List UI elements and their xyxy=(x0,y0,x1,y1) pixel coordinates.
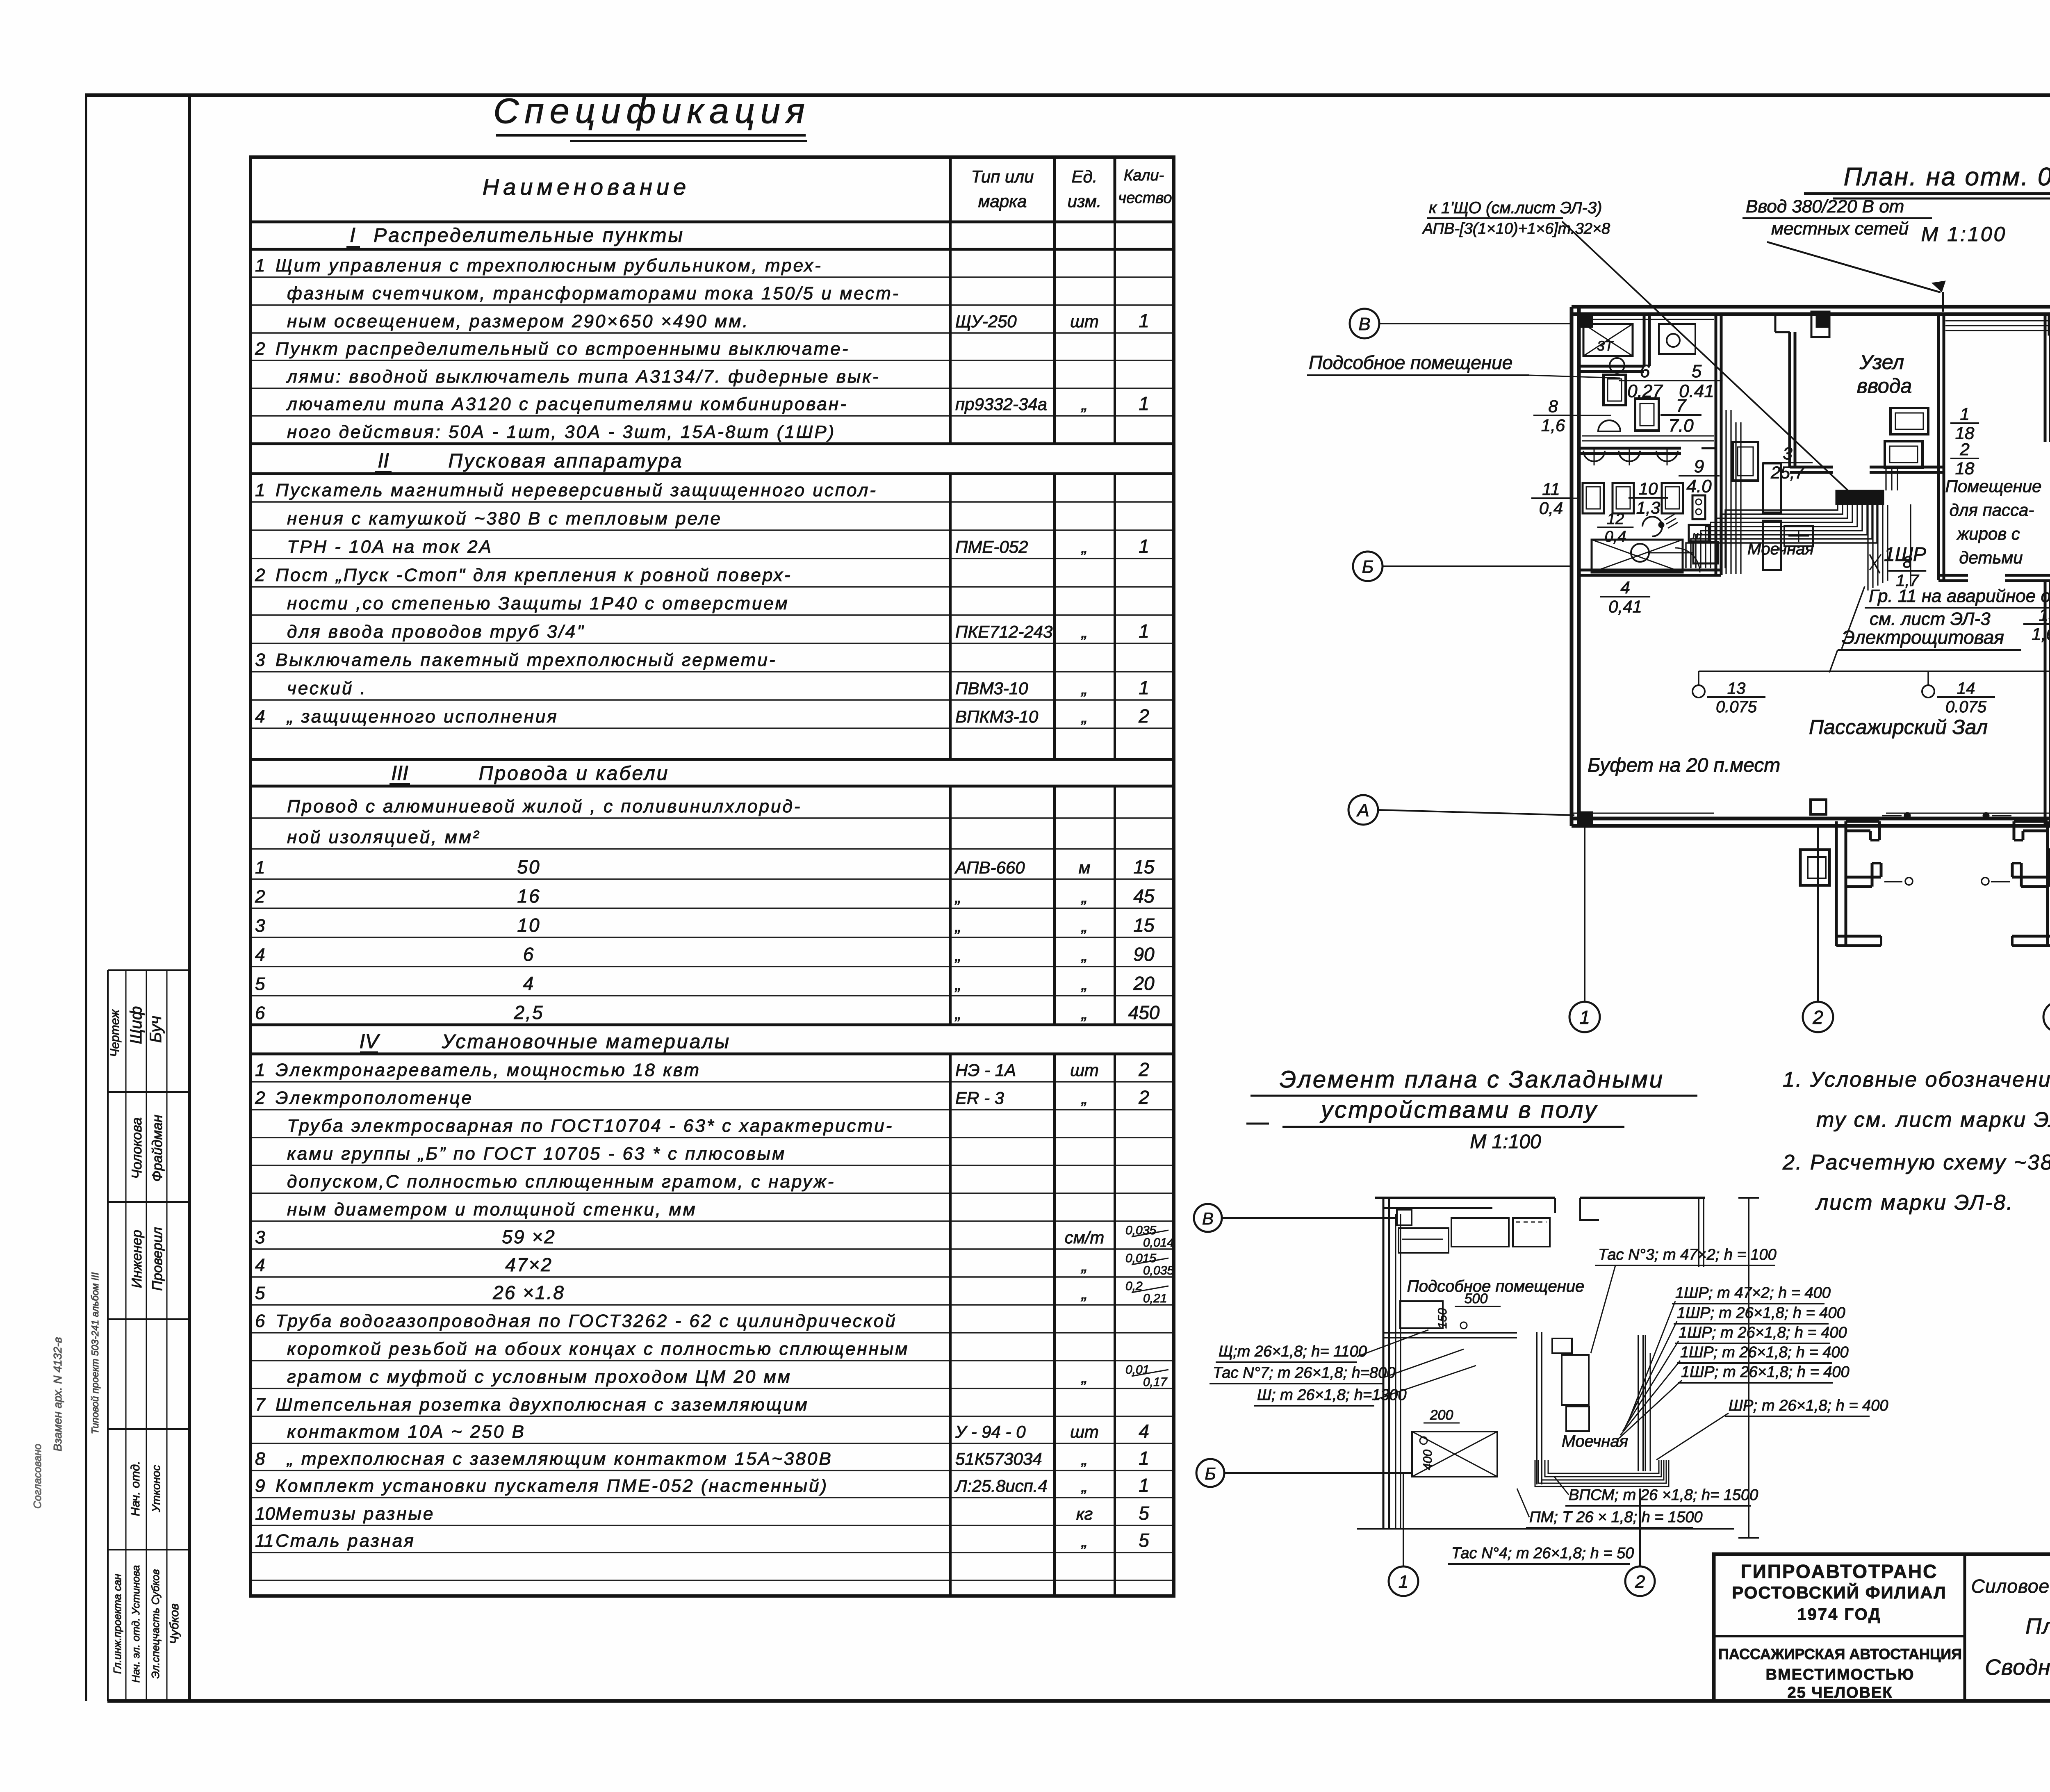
svg-text:51К573034: 51К573034 xyxy=(955,1449,1042,1468)
svg-text:ной изоляцией, мм²: ной изоляцией, мм² xyxy=(287,827,481,847)
junction box on top wires xyxy=(2049,315,2050,335)
fixture: wash basin circle niche xyxy=(1659,324,1695,354)
bottom plan: counter rect middle-left xyxy=(1400,1301,1443,1328)
partition: personnel room left wall x=5000 xyxy=(2044,313,2047,442)
svg-text:Пускатель магнитный нереве: Пускатель магнитный нереверсивный защище… xyxy=(276,480,877,500)
svg-text:Пусковая аппаратура: Пусковая аппаратура xyxy=(448,450,683,472)
svg-text:1: 1 xyxy=(1579,1007,1590,1028)
svg-text:Сталь разная: Сталь разная xyxy=(276,1531,415,1551)
svg-text:ВМЕСТИМОСТЬЮ: ВМЕСТИМОСТЬЮ xyxy=(1766,1666,1915,1683)
bottom plan: dim 200 xyxy=(1424,1423,1460,1424)
svg-text:2,5: 2,5 xyxy=(514,1002,544,1023)
svg-text:ческий .: ческий . xyxy=(287,678,367,698)
svg-text:жиров с: жиров с xyxy=(1956,524,2020,543)
svg-text:3Т: 3Т xyxy=(1597,338,1614,354)
wire bundle fan to the left wing xyxy=(1725,505,1838,568)
svg-text:2. Расчетную схему ~380/220: 2. Расчетную схему ~380/220 в 1ШР см. xyxy=(1782,1151,2050,1174)
bottom plan: cabinet rect 2 xyxy=(1451,1218,1509,1247)
svg-text:Силовое электрооборудование: Силовое электрооборудование xyxy=(1971,1575,2050,1597)
svg-text:0.075: 0.075 xyxy=(1945,698,1987,716)
svg-text:5: 5 xyxy=(1692,361,1702,381)
porch 2 middle lamp line xyxy=(1991,881,2010,882)
svg-text:0,4: 0,4 xyxy=(1605,528,1626,545)
svg-text:ВПСМ; т 26 ×1,8; h= 1500: ВПСМ; т 26 ×1,8; h= 1500 xyxy=(1569,1486,1758,1504)
bottom plan: top wall xyxy=(1375,1197,1555,1199)
svg-text:контактом 10А ~ 250 В: контактом 10А ~ 250 В xyxy=(287,1422,526,1442)
porch 2 box xyxy=(2049,850,2050,885)
svg-text:Щит управления с трехполюсн: Щит управления с трехполюсным рубильнико… xyxy=(276,255,822,276)
bottom plan: right wall upper xyxy=(1698,1198,1699,1267)
svg-text:6: 6 xyxy=(255,1003,265,1023)
svg-text:„: „ xyxy=(1081,916,1087,935)
svg-text:2: 2 xyxy=(255,339,265,359)
fixture: stall rect 4 xyxy=(1689,525,1709,541)
svg-text:Согласовано: Согласовано xyxy=(31,1444,43,1509)
bottom plan: top wall right segment step xyxy=(1580,1198,1599,1220)
partition: left wing bottom wall xyxy=(1578,569,1721,572)
fraction 6/0,27 xyxy=(1619,380,1671,381)
service entry arrow xyxy=(1767,242,1941,292)
bottom plan: small circle outlet xyxy=(1460,1322,1467,1329)
svg-text:4: 4 xyxy=(1620,578,1630,597)
svg-text:11: 11 xyxy=(255,1531,274,1551)
svg-text:Электрощитовая: Электрощитовая xyxy=(1842,627,2004,648)
svg-text:10: 10 xyxy=(517,914,540,936)
svg-text:чество: чество xyxy=(1118,189,1172,207)
svg-text:9: 9 xyxy=(255,1476,265,1496)
svg-text:10: 10 xyxy=(1639,479,1658,498)
svg-text:0,41: 0,41 xyxy=(1608,597,1642,616)
svg-text:План. на отм. 0: План. на отм. 0 xyxy=(1844,163,2050,191)
fixture: box sh xyxy=(1693,542,1718,563)
svg-text:Электронагреватель, мощность: Электронагреватель, мощностью 18 квт xyxy=(276,1060,701,1080)
svg-text:„: „ xyxy=(1081,537,1087,556)
svg-text:Наименование: Наименование xyxy=(483,174,690,200)
bottom plan: horizontal wall under cabinets xyxy=(1383,1332,1517,1334)
bottom plan: circle on crossed box xyxy=(1420,1437,1427,1444)
svg-text:Кали-: Кали- xyxy=(1124,167,1164,184)
svg-text:ПАССАЖИРСКАЯ АВТОСТАНЦИЯ: ПАССАЖИРСКАЯ АВТОСТАНЦИЯ xyxy=(1718,1646,1962,1662)
svg-text:47×2: 47×2 xyxy=(505,1254,553,1275)
bottom plan: wire bundle nested U xyxy=(1535,1460,1669,1486)
svg-text:5: 5 xyxy=(255,1283,265,1303)
svg-text:А: А xyxy=(1356,800,1369,821)
svg-text:короткой резьбой на обоих: короткой резьбой на обоих концах с полно… xyxy=(287,1339,909,1359)
signature strip left border xyxy=(107,970,109,1701)
svg-text:лючатели типа А3120 с расц: лючатели типа А3120 с расцепителями комб… xyxy=(286,394,848,414)
svg-text:шт: шт xyxy=(1070,1060,1099,1080)
axis circle Б xyxy=(1353,552,1383,581)
axis line B xyxy=(1378,323,1572,324)
svg-text:фазным счетчиком, трансформа: фазным счетчиком, трансформаторами тока … xyxy=(287,283,900,303)
svg-text:ЕR - 3: ЕR - 3 xyxy=(955,1088,1004,1108)
svg-text:200: 200 xyxy=(1430,1407,1453,1423)
porch 1 spine wall xyxy=(1835,821,1838,946)
svg-text:0,27: 0,27 xyxy=(1627,381,1663,401)
svg-text:1: 1 xyxy=(1139,310,1149,331)
svg-text:16: 16 xyxy=(517,885,540,907)
equipment rect 2 in uzel vvoda xyxy=(1885,441,1922,467)
svg-text:2: 2 xyxy=(1635,1572,1645,1592)
svg-text:ками группы „Б” по ГОСТ 1: ками группы „Б” по ГОСТ 10705 - 63 * с п… xyxy=(287,1144,786,1164)
svg-text:Пассажирский Зал: Пассажирский Зал xyxy=(1809,716,1988,739)
svg-text:Типовой проект 503-241 альбом: Типовой проект 503-241 альбом III xyxy=(90,1272,101,1434)
svg-text:„ защищенного и: „ защищенного исполнения xyxy=(286,707,558,727)
svg-text:см. лист ЭЛ-3: см. лист ЭЛ-3 xyxy=(1870,609,1991,629)
svg-text:III: III xyxy=(391,761,408,784)
svg-text:Чолокова: Чолокова xyxy=(129,1117,145,1179)
svg-text:ПВМ3-10: ПВМ3-10 xyxy=(955,679,1028,698)
title block left cell divider xyxy=(1714,1635,1965,1637)
svg-text:1ШР; т 26×1,8; h = 400: 1ШР; т 26×1,8; h = 400 xyxy=(1681,1363,1850,1381)
svg-text:0.075: 0.075 xyxy=(1716,698,1757,716)
svg-text:„: „ xyxy=(1081,1284,1087,1303)
bottom plan: riser group right xyxy=(1645,1335,1646,1471)
porch 1 top lamp line xyxy=(1882,815,1902,816)
svg-text:м: м xyxy=(1079,858,1091,877)
svg-text:„: „ xyxy=(1081,622,1087,641)
porch 2 top arm xyxy=(2014,820,2048,823)
svg-text:Б: Б xyxy=(1205,1464,1216,1483)
svg-text:1,3: 1,3 xyxy=(1636,498,1660,518)
bottom plan: cabinet dashed rect 1 xyxy=(1399,1228,1449,1253)
svg-text:шт: шт xyxy=(1070,1422,1099,1441)
svg-text:8: 8 xyxy=(1903,553,1912,571)
wire run above WC wall xyxy=(1582,435,1714,437)
wall column markers xyxy=(1579,314,1592,327)
svg-text:Щиф: Щиф xyxy=(127,1006,145,1044)
svg-text:„: „ xyxy=(954,1003,961,1023)
svg-text:12: 12 xyxy=(1607,511,1624,528)
svg-text:ности ,со степенью Защиты: ности ,со степенью Защиты 1Р40 с отверст… xyxy=(287,593,789,613)
bottom plan left label leaders xyxy=(1357,1330,1428,1357)
svg-text:18: 18 xyxy=(1955,459,1975,478)
svg-text:„: „ xyxy=(1081,707,1087,726)
svg-text:„: „ xyxy=(1081,1531,1087,1550)
svg-text:Подсобное помещение: Подсобное помещение xyxy=(1309,352,1512,373)
svg-text:7: 7 xyxy=(1676,396,1687,416)
fraction 10/1,3 xyxy=(1629,497,1668,499)
svg-text:2: 2 xyxy=(1138,1087,1149,1108)
svg-text:20: 20 xyxy=(1133,973,1155,994)
bottom plan: inner right wall xyxy=(1638,1335,1639,1471)
svg-text:59 ×2: 59 ×2 xyxy=(502,1226,556,1247)
svg-text:Штепсельная розетка двухпо: Штепсельная розетка двухполюсная с зазем… xyxy=(276,1395,809,1415)
fixture: moechnaya tall rects xyxy=(1763,463,1781,513)
svg-text:5: 5 xyxy=(1139,1502,1149,1524)
svg-text:Гр. 11 на аварийное освещен: Гр. 11 на аварийное освещение xyxy=(1869,586,2050,606)
partition: uzel vvoda bottom wall xyxy=(1790,466,1833,469)
svg-text:Гл.инж.проекта сан: Гл.инж.проекта сан xyxy=(111,1574,123,1674)
svg-text:Спецификация: Спецификация xyxy=(493,91,810,131)
porch 1 top arm xyxy=(1846,820,1879,823)
svg-text:План на отм. 0.: План на отм. 0. xyxy=(2025,1614,2050,1639)
svg-text:Распределительные пункты: Распределительные пункты xyxy=(374,225,684,246)
svg-text:Б: Б xyxy=(1362,557,1374,577)
svg-text:Ввод 380/220 В от: Ввод 380/220 В от xyxy=(1746,196,1904,217)
axis circle 3 xyxy=(2043,1002,2050,1032)
spec table header bottom line xyxy=(251,221,1174,223)
svg-text:2: 2 xyxy=(255,1088,265,1108)
svg-text:Инженер: Инженер xyxy=(129,1230,145,1288)
porch 1 box xyxy=(1800,850,1829,885)
fraction 8/1,6 xyxy=(1533,415,1573,416)
svg-text:ПМЕ-052: ПМЕ-052 xyxy=(955,537,1028,556)
svg-text:Буфет на 20 п.мест: Буфет на 20 п.мест xyxy=(1588,755,1780,776)
wires along top wall from service entry xyxy=(1945,320,2050,321)
svg-text:Нач. эл. отд. Устинова: Нач. эл. отд. Устинова xyxy=(130,1565,142,1683)
svg-text:местных сетей: местных сетей xyxy=(1771,219,1909,239)
svg-text:6: 6 xyxy=(1640,361,1650,381)
specification title underline xyxy=(496,134,806,137)
svg-text:3: 3 xyxy=(255,650,265,670)
svg-text:90: 90 xyxy=(1133,944,1155,965)
svg-text:4.0: 4.0 xyxy=(1686,476,1712,496)
svg-text:50: 50 xyxy=(517,856,540,878)
svg-text:4: 4 xyxy=(255,1255,265,1275)
title block vertical divider 1 xyxy=(1963,1554,1966,1701)
svg-text:Взамен арх. N 4132-в: Взамен арх. N 4132-в xyxy=(51,1337,64,1452)
svg-text:15: 15 xyxy=(1133,914,1155,936)
wire lines along moechnaya corridor xyxy=(1725,410,1727,574)
svg-text:3: 3 xyxy=(255,916,265,936)
svg-text:шт: шт xyxy=(1070,312,1099,331)
svg-text:Л:25.8исп.4: Л:25.8исп.4 xyxy=(954,1476,1048,1496)
bottom plan: small box on top wall xyxy=(1397,1210,1412,1225)
axis circle B xyxy=(1350,309,1379,338)
lamp circle 14 xyxy=(1922,685,1934,698)
fixture: device rect 2 xyxy=(1635,399,1659,431)
svg-text:1: 1 xyxy=(1139,1448,1149,1469)
svg-text:Узел: Узел xyxy=(1859,351,1904,374)
wire bundle risers to uzel vvoda equipment xyxy=(1885,468,1886,490)
fixture: bell symbol xyxy=(1598,420,1620,431)
svg-text:8: 8 xyxy=(255,1449,265,1469)
svg-text:Ед.: Ед. xyxy=(1072,167,1098,186)
svg-text:„: „ xyxy=(1081,1256,1087,1275)
outer wall top xyxy=(1572,305,2050,309)
svg-text:1: 1 xyxy=(255,480,265,500)
wire run along wing top wall xyxy=(1582,319,1714,320)
svg-text:„: „ xyxy=(1081,679,1087,698)
svg-text:13: 13 xyxy=(1727,679,1746,698)
svg-text:5: 5 xyxy=(255,974,265,994)
svg-text:АПВ-[3(1×10)+1×6]т.32×8: АПВ-[3(1×10)+1×6]т.32×8 xyxy=(1422,220,1610,237)
svg-text:Метизы разные: Метизы разные xyxy=(276,1504,435,1524)
spec table outer border xyxy=(251,157,1174,1596)
svg-text:2: 2 xyxy=(1959,440,1969,459)
svg-text:гратом с муфтой с условн: гратом с муфтой с условным проходом ЦМ 2… xyxy=(287,1367,792,1387)
sheet frame top line xyxy=(85,93,2050,97)
svg-text:НЭ - 1А: НЭ - 1А xyxy=(955,1060,1016,1080)
door arc left wing xyxy=(1675,548,1700,572)
svg-text:ту см. лист марки ЭЛ -6.: ту см. лист марки ЭЛ -6. xyxy=(1816,1108,2050,1132)
signature strip column line 3 xyxy=(166,970,168,1701)
partition: shower cell xyxy=(1578,365,1644,368)
svg-text:ПКЕ712-243: ПКЕ712-243 xyxy=(955,622,1052,641)
svg-text:„: „ xyxy=(1081,1003,1087,1023)
svg-text:500: 500 xyxy=(1465,1291,1488,1306)
svg-text:детьми: детьми xyxy=(1959,548,2023,567)
svg-text:ВПКМ3-10: ВПКМ3-10 xyxy=(955,707,1039,726)
svg-text:1: 1 xyxy=(1139,677,1149,698)
hall lighting line 13-14 xyxy=(1699,670,2050,672)
svg-text:1974 ГОД: 1974 ГОД xyxy=(1797,1605,1881,1623)
porch 2 bottom arm xyxy=(2012,935,2050,938)
porch 1 middle lamp line xyxy=(1884,881,1902,882)
fraction 7/7,0 xyxy=(1660,414,1701,416)
svg-text:1: 1 xyxy=(255,255,265,276)
fraction 9/4,0 xyxy=(1679,475,1720,476)
svg-text:нения с катушкой ~380 В: нения с катушкой ~380 В с тепловым реле xyxy=(287,508,722,529)
svg-text:Комплект установки пускате: Комплект установки пускателя ПМЕ-052 (на… xyxy=(276,1476,828,1496)
porch 2 spine wall xyxy=(2046,821,2049,946)
svg-text:„: „ xyxy=(954,887,961,906)
svg-text:ЩУ-250: ЩУ-250 xyxy=(955,312,1017,331)
fraction 12/0,4 xyxy=(1597,527,1634,528)
svg-text:1: 1 xyxy=(255,857,265,878)
fraction 5/0,41 xyxy=(1670,380,1722,381)
wire bundle down from panel xyxy=(1867,505,1868,590)
svg-text:0,21: 0,21 xyxy=(1143,1292,1167,1305)
svg-text:5: 5 xyxy=(1139,1530,1149,1551)
leader line from к 1ЩО to panel xyxy=(1562,221,1853,495)
svg-text:„: „ xyxy=(954,974,961,994)
svg-text:Чертеж: Чертеж xyxy=(108,1009,122,1057)
spec table row rule lines and row texts xyxy=(251,276,1174,278)
svg-text:7: 7 xyxy=(255,1395,266,1415)
svg-text:0,014: 0,014 xyxy=(1143,1236,1174,1249)
svg-text:Утконос: Утконос xyxy=(150,1465,162,1513)
svg-text:„: „ xyxy=(1081,945,1087,964)
spec table header vertical lines xyxy=(949,157,952,222)
bottom plan right axis line xyxy=(1748,1198,1749,1538)
svg-text:IV: IV xyxy=(359,1030,380,1053)
svg-text:1ШР; т 47×2; h = 400: 1ШР; т 47×2; h = 400 xyxy=(1675,1284,1831,1302)
svg-text:пр9332-34а: пр9332-34а xyxy=(955,394,1047,414)
fixture: shower tray xyxy=(1583,324,1633,356)
svg-text:10: 10 xyxy=(255,1504,275,1524)
svg-text:6: 6 xyxy=(523,944,535,965)
svg-text:В: В xyxy=(1358,314,1370,334)
svg-text:для пасса-: для пасса- xyxy=(1950,500,2034,520)
svg-text:„: „ xyxy=(1081,394,1087,414)
svg-text:„: „ xyxy=(1081,974,1087,994)
axis line Б xyxy=(1382,565,1572,567)
svg-text:400: 400 xyxy=(1421,1450,1435,1470)
svg-text:Эл.спецчасть Субков: Эл.спецчасть Субков xyxy=(149,1569,162,1678)
lamp circle 13 xyxy=(1692,685,1705,698)
sheet frame main left line xyxy=(188,93,191,1701)
svg-text:Тас N°4; т 26×1,8; h = 50: Тас N°4; т 26×1,8; h = 50 xyxy=(1451,1545,1634,1562)
svg-text:для ввода проводов труб: для ввода проводов труб 3/4" xyxy=(287,622,585,642)
fixture: vent chamber crossed box xyxy=(1592,540,1683,572)
svg-text:2: 2 xyxy=(255,887,265,907)
svg-text:„: „ xyxy=(1081,1367,1087,1386)
svg-text:ным освещением, размером 290: ным освещением, размером 290×650 ×490 мм… xyxy=(287,311,749,331)
outer wall bottom xyxy=(1572,817,2050,821)
axis circle 2 xyxy=(1803,1002,1833,1032)
svg-text:М 1:100: М 1:100 xyxy=(1470,1131,1541,1153)
bottom plan axis circle 1 xyxy=(1389,1566,1418,1596)
svg-text:1,63: 1,63 xyxy=(2032,625,2050,644)
bottom plan: central vertical wall xyxy=(1536,1332,1537,1484)
svg-text:Проверил: Проверил xyxy=(150,1227,165,1290)
bottom plan right label leaders xyxy=(1591,1265,1615,1353)
svg-text:45: 45 xyxy=(1133,885,1155,907)
bottom plan: extra wall lines left xyxy=(1395,1214,1396,1529)
fraction 14/0,075 xyxy=(1937,696,1995,698)
axis line А xyxy=(1378,810,1574,815)
svg-text:лями: вводной выключатель: лями: вводной выключатель типа А3134/7. … xyxy=(286,367,880,387)
svg-text:14: 14 xyxy=(1957,679,1975,698)
fixture: signal device xyxy=(1692,495,1705,519)
svg-text:ПМ; Т 26 × 1,8; h = 1500: ПМ; Т 26 × 1,8; h = 1500 xyxy=(1529,1509,1703,1526)
svg-text:0,17: 0,17 xyxy=(1143,1375,1168,1389)
sheet outer thin border line (left) xyxy=(85,93,87,1701)
svg-text:11: 11 xyxy=(1542,479,1560,499)
partition: uzel vvoda left wall xyxy=(1788,332,1791,467)
svg-text:3: 3 xyxy=(1783,444,1792,463)
fixture: pendant light xyxy=(1642,517,1662,536)
bottom plan: crossed box (vent) xyxy=(1412,1432,1497,1477)
top wall niche box xyxy=(1811,312,1829,337)
svg-text:„: „ xyxy=(1081,1088,1087,1108)
svg-text:4: 4 xyxy=(255,945,265,965)
svg-text:Фрайдман: Фрайдман xyxy=(150,1115,165,1182)
svg-text:150: 150 xyxy=(1436,1308,1449,1329)
svg-text:2: 2 xyxy=(1812,1007,1823,1028)
svg-text:4: 4 xyxy=(255,707,265,727)
svg-text:марка: марка xyxy=(978,192,1027,211)
outer wall left xyxy=(1570,307,1574,826)
fixture: heater boxes with plus marks xyxy=(1784,526,1813,546)
svg-text:Пост „Пуск -Стоп" для крепл: Пост „Пуск -Стоп" для крепления к ровной… xyxy=(276,565,792,585)
spec table section band borders xyxy=(251,221,1174,223)
svg-text:1ШР; т 26×1,8; h = 400: 1ШР; т 26×1,8; h = 400 xyxy=(1680,1344,1849,1361)
svg-text:допуском,С полностью сплющен: допуском,С полностью сплющенным гратом, … xyxy=(287,1172,835,1192)
fraction 15/1,63 xyxy=(2023,623,2050,625)
svg-text:2: 2 xyxy=(1138,1059,1149,1080)
svg-text:Элемент плана с Закладными: Элемент плана с Закладными xyxy=(1280,1066,1664,1093)
svg-text:Тип или: Тип или xyxy=(971,167,1034,186)
porch 1 bottom arm xyxy=(1836,935,1881,938)
bottom plan: left wall xyxy=(1383,1198,1385,1529)
svg-text:1: 1 xyxy=(1139,1475,1149,1496)
partition: corridor wall x=4740 xyxy=(1937,313,1940,580)
svg-text:ного действия: 50А - 1шт,: ного действия: 50А - 1шт, 30А - 3шт, 15А… xyxy=(287,422,836,442)
svg-text:кг: кг xyxy=(1076,1504,1093,1523)
svg-text:Тас N°3; т 47×2; h = 100: Тас N°3; т 47×2; h = 100 xyxy=(1598,1246,1777,1263)
fraction 4/0,41 xyxy=(1600,596,1650,597)
porch 1 middle arm xyxy=(1846,876,1881,879)
wire drop to hall floor line xyxy=(1910,504,1911,586)
svg-text:см/т: см/т xyxy=(1065,1228,1104,1247)
svg-text:1: 1 xyxy=(1960,404,1969,424)
signature strip column line 1 xyxy=(125,970,127,1701)
svg-text:АПВ-660: АПВ-660 xyxy=(954,858,1025,877)
axis circle А xyxy=(1348,795,1378,825)
svg-text:0,4: 0,4 xyxy=(1539,499,1563,518)
svg-text:450: 450 xyxy=(1128,1002,1160,1023)
svg-text:4: 4 xyxy=(523,973,535,994)
partition: WC row wall xyxy=(1578,447,1681,450)
fixture: urinal bowls on WC wall xyxy=(1583,451,1605,461)
svg-text:У - 94 - 0: У - 94 - 0 xyxy=(955,1422,1026,1441)
svg-text:„: „ xyxy=(954,916,961,935)
fraction 3/25,7 xyxy=(1763,462,1813,463)
fixture: lamp/device rect 1 xyxy=(1604,375,1626,405)
